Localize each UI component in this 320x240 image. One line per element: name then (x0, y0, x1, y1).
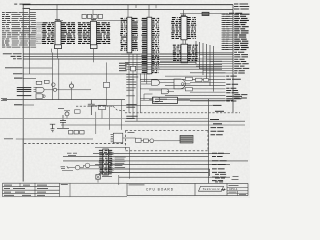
net label left y139 (4, 138, 13, 140)
net labels connector J1 inner (223, 14, 231, 49)
wire rail y125 (61, 124, 245, 126)
wire lower right rows (140, 73, 226, 101)
IC U5 body (181, 16, 187, 39)
resistor R7 (75, 110, 81, 113)
oscillator IC U7 pin rows (99, 150, 112, 173)
IC U1 right pin field (61, 23, 76, 44)
wire rail y105.5 (91, 105, 212, 107)
refdes label U7 group (67, 152, 72, 154)
refdes label U2 (91, 19, 96, 21)
gate G4 (152, 80, 160, 86)
Tektronix logo (199, 186, 224, 191)
net labels right mid rows (234, 52, 249, 73)
net labels connector J1 (234, 14, 249, 49)
IC U8 in dashed box (113, 133, 123, 143)
wire below U2 (93, 49, 95, 63)
label right of dashed box (211, 128, 224, 135)
title block main box (127, 183, 248, 195)
net label G3 input (17, 95, 32, 97)
IC U1 left pin field (42, 23, 55, 44)
net label TALK (213, 104, 222, 106)
wire U3 top feed (128, 5, 149, 18)
bus left address/data stubs (11, 12, 36, 47)
title right stack text (229, 184, 239, 186)
wire vertical x52 (51, 53, 53, 101)
IC U6 right pin field (187, 45, 198, 60)
wire U5 to U6 (183, 40, 186, 44)
net labels G2 inputs (17, 87, 32, 89)
wire dashed box wiring (123, 138, 180, 141)
test point TP1 (196, 78, 203, 81)
net label row y74 (13, 73, 23, 75)
wire rail y118.6 right arrowline (125, 118, 209, 120)
wire top right stub row (180, 13, 228, 15)
wire row y74 (23, 73, 150, 75)
wire bottom long rails (63, 153, 248, 177)
IC U9 horizontal body (153, 97, 178, 103)
IC U7 fan-out diagonals (108, 151, 113, 172)
net label row y105 (14, 104, 23, 106)
gate G7 big (174, 79, 185, 89)
diode D1 (50, 124, 55, 132)
wire U9 input left (141, 94, 153, 100)
revision table text (4, 184, 12, 186)
IC U1 body (55, 21, 61, 45)
net label rail left2 (11, 55, 22, 57)
wire vertical bus to connector J1 (232, 5, 234, 112)
IC U5 left pin labels (171, 18, 181, 39)
wire light rail y118.6 (0, 118, 125, 120)
IC U3 body (127, 17, 132, 53)
IC U2 right pin field (96, 23, 110, 44)
net label left of y99.5 (1, 98, 7, 100)
labels below U3 rows (126, 74, 137, 76)
wire mid rails right half (125, 54, 233, 69)
wire row y99.5 long (3, 99, 126, 101)
wire gate cluster wiring (141, 73, 190, 99)
wire U2 to U3 top link (57, 19, 127, 21)
IC U4 body (147, 17, 152, 74)
IC U6 left pin labels (173, 45, 182, 60)
wire top power rail (23, 4, 234, 6)
middle band text (61, 184, 68, 186)
resistor pack RP1 boxes (82, 14, 86, 18)
title block middle band (60, 183, 128, 196)
transistor Q1 (69, 84, 73, 88)
gate G2 and-gate (36, 87, 44, 92)
net label y125 (213, 123, 222, 125)
wire elbows to J1 mid rows (196, 52, 233, 73)
capacitor C2 (88, 100, 95, 115)
wire row y105 (23, 104, 34, 106)
IC U3 right pin field (132, 18, 139, 50)
scan noise overlay (0, 0, 1, 1)
net labels bottom right rows (212, 152, 224, 154)
net label row y68 (5, 67, 23, 69)
wire cluster verticals (96, 100, 122, 134)
gate G5 (162, 89, 169, 94)
wire fan below U6 (196, 41, 214, 92)
gate G1 (36, 81, 42, 84)
resistor R6 box (99, 105, 106, 109)
wire vertical x58.8 (58, 58, 60, 99)
IC U2 left pin field (78, 23, 91, 44)
net labels above title right (215, 174, 226, 182)
refdes label U1 (55, 19, 60, 21)
title block revision table (3, 183, 60, 196)
component label box top right (202, 12, 209, 15)
wire bottom left vertical (22, 139, 24, 182)
net labels below U3 upper rows (119, 62, 129, 64)
gate G3 (36, 94, 43, 99)
wire below U1 (52, 49, 58, 59)
hatched label block MC3456 (180, 135, 193, 143)
jumper boxes W1 (69, 130, 73, 134)
net label right row3 (229, 12, 242, 14)
label box TP2 (185, 77, 192, 80)
IC U2 body (91, 21, 97, 45)
decoupling box below U1 (55, 45, 62, 49)
connector J1 pin stubs (222, 14, 234, 49)
refdes label U5 (181, 14, 186, 16)
wire U2 top feed (92, 19, 94, 22)
capacitor C3 cluster (57, 115, 69, 128)
wire vertical right rail (208, 99, 210, 184)
net labels right of U9 (234, 95, 247, 98)
gate G9 buffer (85, 163, 90, 168)
bus left extension to U1 (36, 23, 43, 43)
wire U1 top feed (56, 5, 58, 21)
wire rail y121.2 (125, 120, 245, 122)
resistor R10 (61, 166, 74, 170)
labels below U3 rows2 (126, 87, 135, 89)
wire U5 top feed (183, 10, 185, 17)
crystal Y1 (96, 175, 101, 180)
net label PD-2 (215, 110, 224, 112)
net label crystal (102, 176, 112, 178)
wire long mid rails (23, 54, 196, 62)
title right stack (227, 187, 248, 195)
net label y121 (210, 119, 219, 121)
wire clock wiring (68, 165, 99, 169)
resistor R5 box (104, 82, 110, 87)
wire stub x156 (155, 5, 157, 9)
gate G8 buffer (75, 165, 80, 170)
net label TOP-1 (14, 3, 17, 5)
wire second top rail (29, 9, 233, 11)
wire vertical left second (29, 10, 31, 74)
gate G10 small (131, 66, 136, 71)
net label in dashed box (128, 131, 135, 133)
net labels clock fan (115, 156, 126, 158)
title small text line (129, 184, 145, 186)
wire left rail y139 (16, 138, 93, 140)
net label MA bus top right (234, 4, 249, 9)
net labels left column y104-118 (126, 104, 136, 106)
net label row y78 (14, 77, 23, 79)
net labels lower right rows (226, 75, 237, 77)
wire row y78 (23, 77, 36, 79)
labels above title block right corner (232, 176, 239, 179)
net label rail left3 (13, 58, 22, 60)
dashed boundary upper (76, 105, 113, 107)
IC U3 bottom edge (121, 53, 140, 55)
transistor Q2 (65, 112, 69, 116)
frame box clock section (95, 147, 130, 178)
component DAC parts (136, 138, 142, 142)
wire U9 output right (178, 99, 234, 101)
dashed enclosure DAC section (126, 130, 209, 150)
label box TP3 (185, 88, 192, 91)
pins U8 (111, 135, 114, 142)
IC U3 left pin labels (120, 18, 127, 50)
IC U4 left pin labels (142, 18, 148, 72)
dashed boundary left (24, 143, 126, 145)
oscillator IC U7 body outline (103, 149, 109, 175)
IC U9 internal text (155, 98, 167, 100)
wire verticals below U3 (129, 54, 141, 121)
IC U6 body (181, 44, 188, 63)
wire RP1 feed (92, 10, 94, 15)
gate G6 (153, 97, 160, 102)
net labels left bus (2, 12, 11, 47)
IC U5 right pin field (187, 18, 197, 39)
wire below clock (98, 175, 119, 185)
wire G2 wiring (34, 88, 92, 92)
wire row y68 (23, 67, 52, 69)
wire vertical main left (22, 5, 24, 182)
net label rail left1 (3, 53, 22, 55)
IC U4 right pin field (152, 18, 160, 72)
decoupling box below U2 (91, 45, 98, 49)
capacitor network labels (58, 108, 64, 110)
